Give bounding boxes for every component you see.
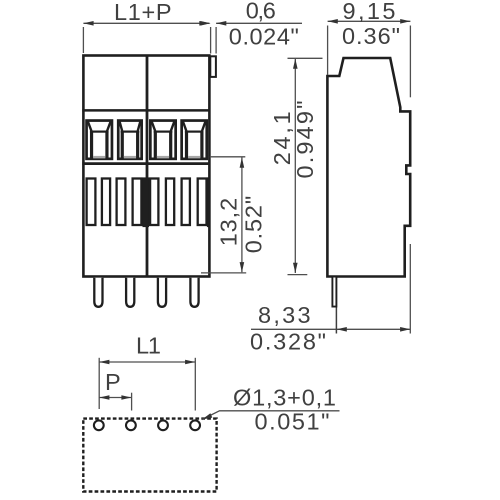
svg-text:Ø1,3+0,1: Ø1,3+0,1 [233, 385, 336, 411]
svg-text:0.52": 0.52" [241, 196, 267, 254]
svg-text:0.328": 0.328" [250, 329, 326, 355]
svg-text:0.949": 0.949" [292, 101, 318, 179]
svg-text:0.024": 0.024" [229, 24, 299, 50]
svg-text:P: P [105, 369, 121, 395]
svg-text:8,33: 8,33 [258, 302, 311, 328]
svg-text:L1: L1 [136, 333, 161, 359]
svg-text:0.36": 0.36" [342, 23, 400, 49]
svg-text:0,6: 0,6 [246, 0, 276, 24]
svg-text:L1+P: L1+P [114, 0, 172, 25]
svg-text:13,2: 13,2 [215, 198, 241, 247]
svg-text:9,15: 9,15 [343, 0, 396, 24]
svg-text:0.051": 0.051" [255, 409, 330, 435]
